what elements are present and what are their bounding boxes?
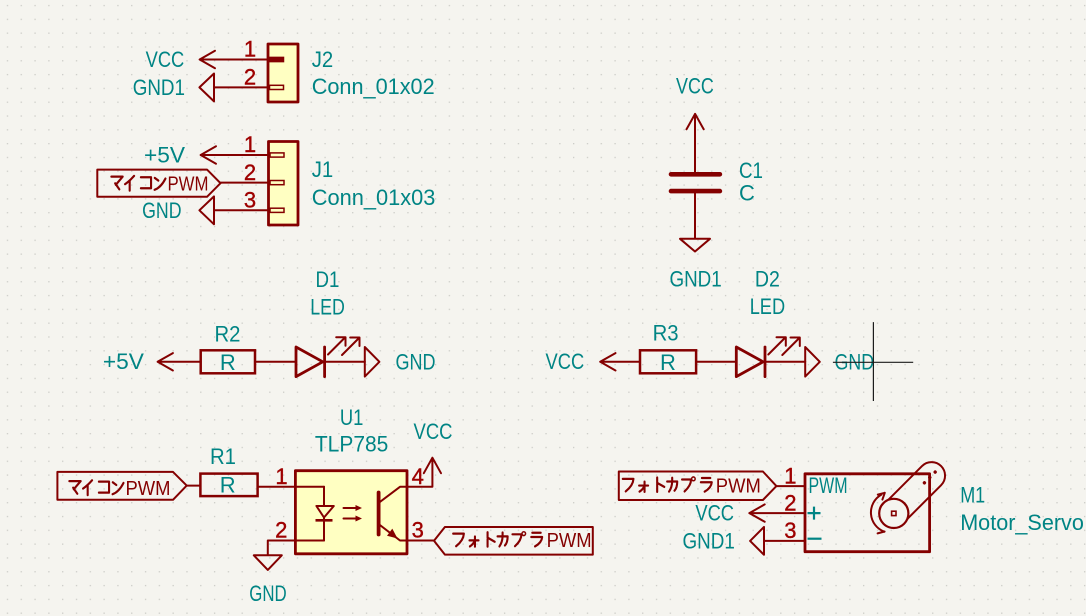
svg-text:J1: J1 [312, 157, 334, 182]
svg-text:GND: GND [396, 349, 436, 374]
svg-text:PWM: PWM [168, 173, 209, 195]
svg-text:C: C [739, 181, 755, 206]
svg-text:VCC: VCC [546, 349, 585, 374]
svg-text:Conn_01x03: Conn_01x03 [312, 185, 436, 210]
svg-text:1: 1 [275, 464, 287, 489]
svg-text:GND: GND [142, 198, 181, 223]
svg-text:PWM: PWM [126, 478, 171, 500]
svg-text:VCC: VCC [676, 74, 714, 99]
svg-text:GND1: GND1 [683, 528, 735, 553]
svg-text:R: R [220, 473, 236, 498]
svg-text:M1: M1 [960, 482, 985, 507]
svg-text:2: 2 [784, 490, 796, 515]
svg-text:R1: R1 [210, 444, 236, 469]
svg-text:R2: R2 [215, 322, 241, 347]
svg-text:VCC: VCC [695, 500, 734, 525]
svg-text:3: 3 [412, 518, 424, 543]
svg-text:1: 1 [784, 463, 796, 488]
svg-text:+5V: +5V [144, 143, 185, 168]
svg-text:R: R [660, 350, 676, 375]
svg-text:PWM: PWM [716, 475, 761, 497]
svg-text:LED: LED [310, 295, 345, 320]
svg-text:LED: LED [750, 294, 785, 319]
svg-text:+5V: +5V [103, 349, 144, 374]
svg-text:Conn_01x02: Conn_01x02 [312, 74, 435, 99]
svg-text:PWM: PWM [809, 473, 848, 498]
svg-text:VCC: VCC [414, 419, 453, 444]
svg-text:R3: R3 [653, 321, 679, 346]
svg-text:D2: D2 [755, 266, 780, 291]
svg-text:U1: U1 [340, 405, 364, 430]
svg-text:2: 2 [244, 160, 256, 185]
svg-text:3: 3 [784, 518, 796, 543]
svg-text:3: 3 [244, 188, 256, 213]
svg-text:GND: GND [249, 581, 286, 606]
svg-text:R: R [220, 350, 236, 375]
svg-text:GND1: GND1 [669, 266, 721, 291]
svg-text:1: 1 [244, 132, 256, 157]
svg-text:D1: D1 [316, 267, 340, 292]
svg-text:VCC: VCC [146, 47, 185, 72]
svg-text:C1: C1 [739, 158, 763, 183]
svg-text:Motor_Servo: Motor_Servo [960, 510, 1084, 535]
svg-text:PWM: PWM [547, 530, 592, 552]
svg-text:TLP785: TLP785 [315, 432, 389, 457]
svg-text:J2: J2 [312, 47, 334, 72]
svg-text:2: 2 [244, 65, 256, 90]
svg-text:GND1: GND1 [133, 75, 185, 100]
svg-text:1: 1 [244, 37, 256, 62]
svg-text:2: 2 [275, 518, 287, 543]
svg-text:4: 4 [412, 464, 424, 489]
